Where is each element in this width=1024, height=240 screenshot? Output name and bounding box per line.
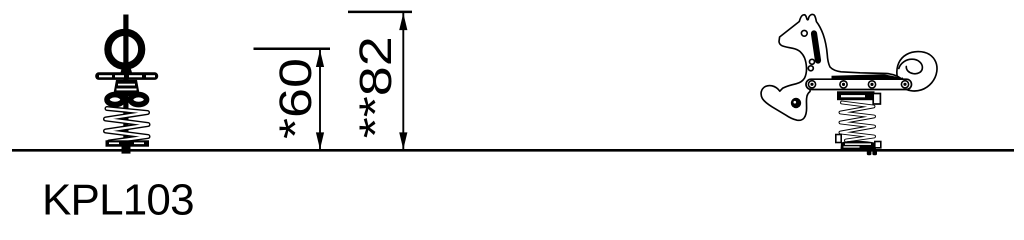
svg-text:KPL103: KPL103 xyxy=(42,176,194,225)
svg-text:**82: **82 xyxy=(350,36,401,138)
svg-text:*60: *60 xyxy=(270,58,321,139)
